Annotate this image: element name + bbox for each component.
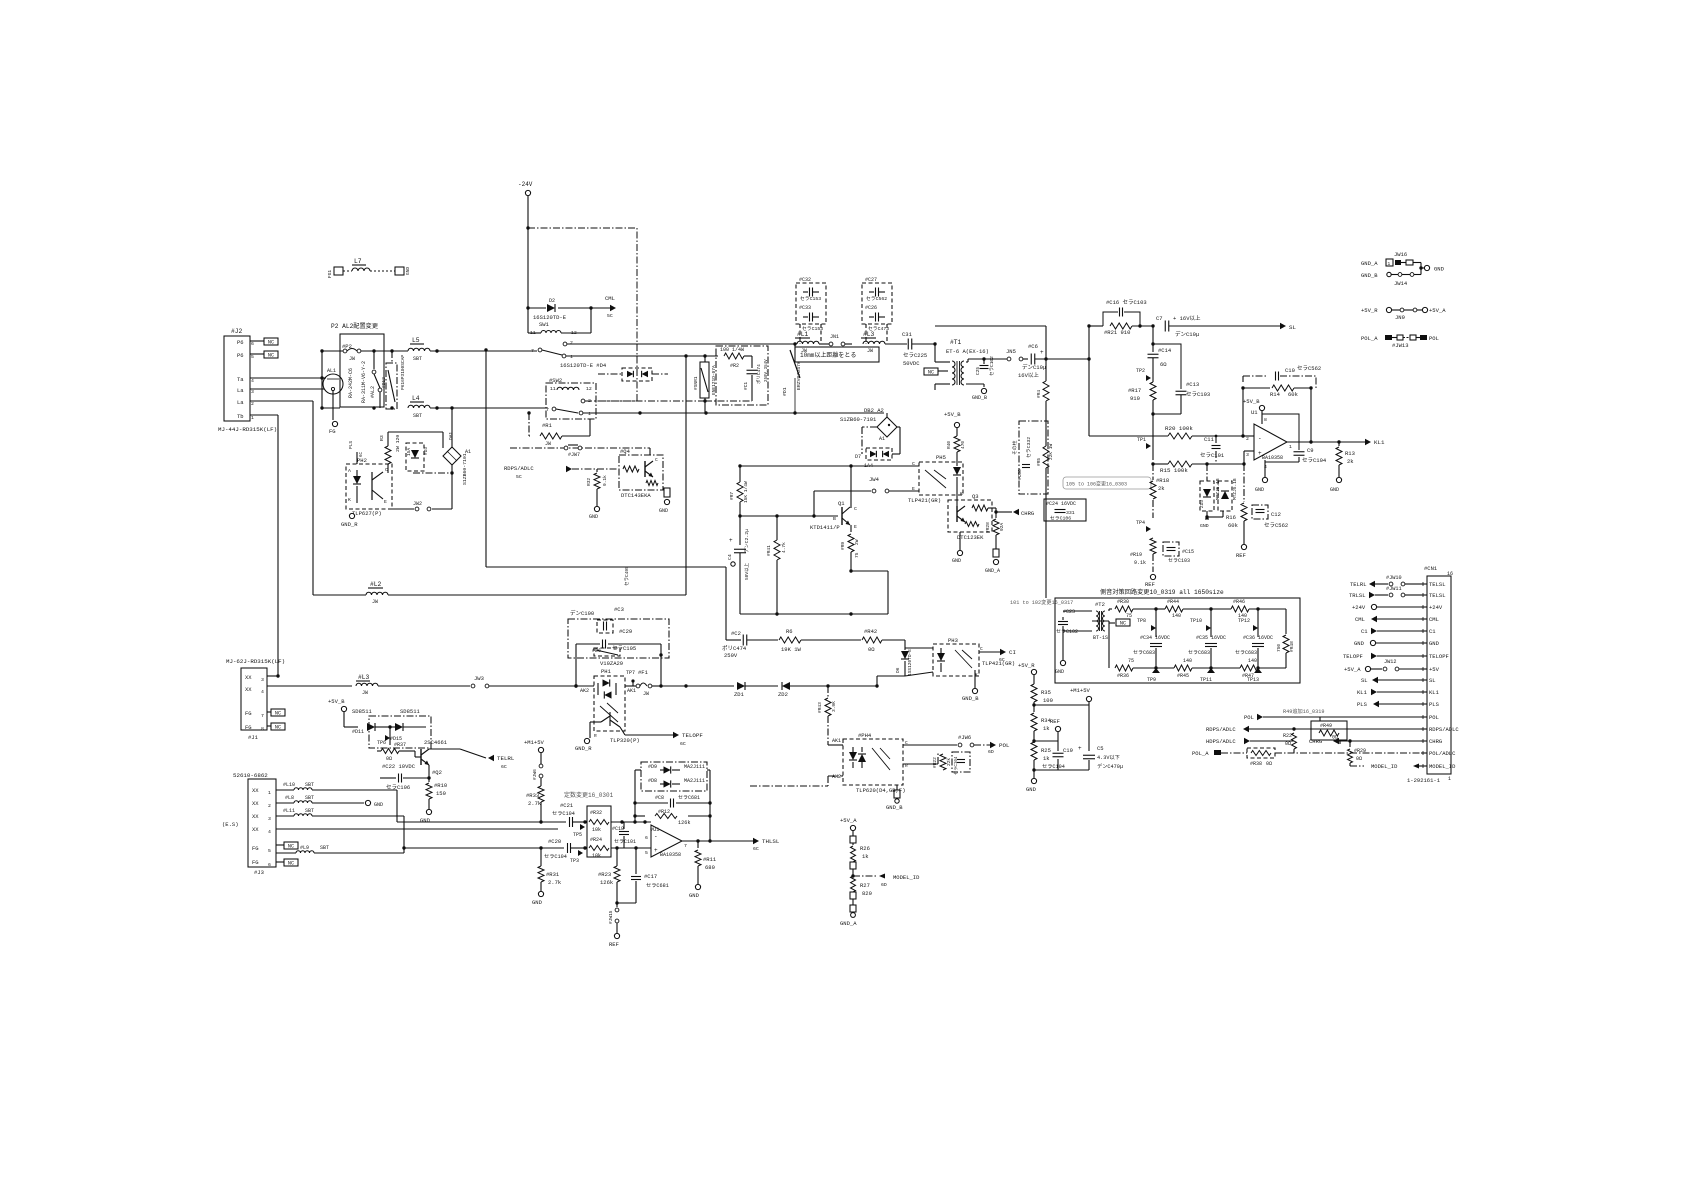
cap C12 <box>1252 505 1288 529</box>
dash-dot R32 to Q4 <box>597 468 619 470</box>
svg-text:A: A <box>348 468 351 474</box>
svg-text:ZD1: ZD1 <box>734 691 745 698</box>
svg-text:SBT: SBT <box>305 808 314 814</box>
svg-text:TP7: TP7 <box>626 670 635 676</box>
jumper JN1 <box>819 334 852 346</box>
jumper #JW6 vert <box>532 764 543 786</box>
svg-text:AK1: AK1 <box>832 738 841 744</box>
jumper JW16 <box>1394 251 1407 258</box>
svg-text:D6: D6 <box>895 667 901 673</box>
svg-text:+: + <box>654 847 658 854</box>
svg-text:0Ω: 0Ω <box>386 756 392 762</box>
opto PH5 <box>908 454 963 504</box>
svg-text:101 to 102変更16_0317: 101 to 102変更16_0317 <box>1010 598 1073 606</box>
signal KL1 <box>1357 689 1421 696</box>
svg-text:1: 1 <box>1448 776 1451 782</box>
svg-text:#L2: #L2 <box>370 581 382 588</box>
signal SL <box>1361 677 1421 684</box>
svg-text:CI: CI <box>1009 649 1016 656</box>
wire L4 branch down <box>450 406 453 448</box>
svg-text:92A: 92A <box>999 523 1005 531</box>
svg-text:セラC683: セラC683 <box>1188 650 1210 656</box>
svg-text:#R21 910: #R21 910 <box>1104 329 1130 336</box>
svg-text:POL_A: POL_A <box>1361 335 1378 342</box>
cap #C21 <box>552 802 587 827</box>
inductor L7 <box>327 258 411 278</box>
connector #J2 <box>218 328 277 433</box>
signal POL cn <box>1244 714 1421 721</box>
note box 10mm <box>795 347 879 362</box>
svg-text:XX: XX <box>252 800 259 807</box>
svg-text:R3: R3 <box>379 435 385 441</box>
connector MJ-62J <box>226 658 285 741</box>
svg-text:C7: C7 <box>1156 315 1163 322</box>
wire vertical Tb to XX3 <box>277 415 279 676</box>
svg-text:Ta: Ta <box>237 376 244 383</box>
svg-text:REF: REF <box>1236 552 1246 559</box>
jumper JN9 row <box>1361 307 1446 321</box>
svg-text:TELOPF: TELOPF <box>1343 653 1363 660</box>
svg-text:250V: 250V <box>724 652 738 659</box>
svg-text:+: + <box>1078 745 1082 752</box>
svg-text:4.7k: 4.7k <box>781 542 787 553</box>
wire y466 <box>738 464 919 467</box>
svg-text:FG: FG <box>245 710 252 717</box>
terminal +M1+5V <box>1032 687 1091 751</box>
svg-text:60k: 60k <box>1228 522 1239 529</box>
svg-text:RDPS/ADLC: RDPS/ADLC <box>1429 726 1459 733</box>
terminal GND topright <box>1394 265 1445 287</box>
connector 52610-6862 <box>222 772 276 876</box>
svg-text:60k: 60k <box>1288 391 1299 398</box>
resistor R34 <box>1031 713 1052 743</box>
resistor #R45 <box>1156 658 1240 679</box>
svg-text:+: + <box>1040 349 1044 356</box>
svg-text:#U1: #U1 <box>650 827 659 833</box>
svg-text:#C36 16VDC: #C36 16VDC <box>1243 635 1273 641</box>
inductor #L8 <box>276 795 383 808</box>
svg-text:10mm以上距離をとる: 10mm以上距離をとる <box>800 351 856 359</box>
svg-text:ポリC474: ポリC474 <box>755 364 762 384</box>
svg-text:REF: REF <box>1145 581 1155 588</box>
svg-text:K: K <box>348 497 351 503</box>
svg-text:2: 2 <box>570 340 573 346</box>
wire ring path <box>484 348 726 640</box>
svg-text:SBT: SBT <box>320 845 329 851</box>
resistor #R37 <box>377 742 415 762</box>
svg-text:1: 1 <box>251 415 254 421</box>
svg-text:TELRL: TELRL <box>1350 581 1367 588</box>
svg-text:#R4: #R4 <box>1036 390 1042 398</box>
svg-text:PLS: PLS <box>1357 701 1368 708</box>
svg-text:4.3V以下: 4.3V以下 <box>1097 754 1120 761</box>
svg-text:4: 4 <box>251 378 254 384</box>
svg-text:セラC683: セラC683 <box>1235 650 1257 656</box>
signal CML <box>1355 616 1421 623</box>
jumper #P2 <box>322 343 408 362</box>
T1 primary wire <box>935 344 950 390</box>
svg-text:POL: POL <box>999 742 1010 749</box>
PH4 in wires <box>750 745 843 786</box>
svg-text:TELRL: TELRL <box>497 755 515 762</box>
svg-text:#JW6: #JW6 <box>532 769 538 780</box>
resistor #R10 <box>420 778 447 824</box>
svg-text:2: 2 <box>251 401 254 407</box>
svg-text:ポリC474: ポリC474 <box>722 645 747 652</box>
svg-text:#C20: #C20 <box>548 838 561 845</box>
cap C25 <box>968 356 1007 376</box>
svg-text:+M1+5V: +M1+5V <box>1070 687 1091 694</box>
svg-text:5: 5 <box>268 848 271 854</box>
svg-text:16V以上: 16V以上 <box>1018 371 1039 379</box>
svg-text:TP2: TP2 <box>1136 368 1145 374</box>
flag SL <box>1169 323 1296 331</box>
svg-text:GND: GND <box>420 817 431 824</box>
svg-text:HDPS/ADLC: HDPS/ADLC <box>1206 738 1236 745</box>
svg-text:GND: GND <box>1434 266 1445 273</box>
CN1 pin labels <box>1421 581 1459 770</box>
svg-text:ZD3: ZD3 <box>1199 500 1205 508</box>
ground GND below R32 <box>589 506 600 520</box>
svg-text:JW: JW <box>349 356 355 362</box>
gnd GND_A mid <box>985 549 1000 574</box>
svg-text:7: 7 <box>546 407 549 413</box>
svg-text:TP1: TP1 <box>1137 437 1146 443</box>
svg-text:PH3: PH3 <box>948 637 958 644</box>
cap #C18 <box>612 822 636 848</box>
svg-text:#Q4: #Q4 <box>620 448 631 455</box>
svg-text:52610-6862: 52610-6862 <box>233 772 268 779</box>
resistor R20 <box>1089 425 1245 439</box>
note 105-106 <box>1063 477 1151 489</box>
svg-text:JW: JW <box>867 348 873 354</box>
svg-text:6C: 6C <box>999 657 1005 663</box>
svg-text:R49追加16_0319: R49追加16_0319 <box>1283 707 1325 715</box>
svg-text:C31: C31 <box>902 331 913 338</box>
junction <box>638 411 796 414</box>
svg-text:+5V: +5V <box>1429 666 1440 673</box>
svg-text:0Ω: 0Ω <box>1266 761 1272 767</box>
transistor block Q3 <box>948 493 996 541</box>
PH3 in wires <box>905 648 933 676</box>
svg-text:CHRG: CHRG <box>1021 510 1034 517</box>
svg-text:#C8: #C8 <box>655 795 664 801</box>
svg-text:4: 4 <box>261 689 264 695</box>
svg-text:定数変更16_0301: 定数変更16_0301 <box>564 791 614 799</box>
svg-text:GND: GND <box>1429 640 1440 647</box>
terminal REF u1 <box>1236 544 1247 559</box>
gnd Q3 <box>952 532 963 564</box>
relay AL2 text RA-311M-V6-Y-2 <box>361 361 367 403</box>
svg-text:GND: GND <box>1354 640 1365 647</box>
svg-text:GND: GND <box>1055 669 1064 675</box>
wire Q1 emitter chain <box>840 525 860 573</box>
feedback R14/C10 <box>1241 385 1312 436</box>
svg-text:TP12: TP12 <box>1238 618 1250 624</box>
wire L3 to C31 <box>885 343 907 345</box>
svg-text:FG: FG <box>252 845 259 852</box>
cap #C14 <box>1148 347 1172 368</box>
svg-text:セラC332: セラC332 <box>1026 437 1032 458</box>
svg-text:R40: R40 <box>946 441 952 449</box>
svg-text:TRLSL: TRLSL <box>1349 592 1366 599</box>
svg-text:3: 3 <box>268 816 271 822</box>
svg-text:#AL2: #AL2 <box>370 386 376 398</box>
svg-text:XX: XX <box>245 674 252 681</box>
rotated cap label <box>624 566 630 586</box>
svg-text:#R41: #R41 <box>766 545 772 556</box>
U1 gnd <box>1255 460 1268 493</box>
cap #C35 <box>1188 609 1226 670</box>
svg-text:140: 140 <box>1183 658 1192 664</box>
svg-text:R32: R32 <box>586 478 592 486</box>
svg-text:#C29: #C29 <box>619 628 632 635</box>
relay AL1 text RA-242M-C6 <box>348 368 354 398</box>
zener #D3 <box>406 443 429 471</box>
svg-text:22k: 22k <box>946 758 952 766</box>
svg-text:MJ-44J-RD315K(LF): MJ-44J-RD315K(LF) <box>218 426 277 433</box>
cap C10 <box>1243 365 1321 388</box>
op-amp #U1b <box>645 825 687 858</box>
wire left chain x1089 <box>1088 326 1090 436</box>
terminal GND_A bottom <box>840 905 857 927</box>
gain box R32/R24 <box>587 806 611 857</box>
marker TP10 <box>1190 618 1211 631</box>
flag TELOPF <box>610 727 703 747</box>
zener ZD2 <box>778 682 879 698</box>
wire Tb <box>250 414 278 416</box>
svg-text:C19: C19 <box>1063 747 1073 754</box>
svg-text:+5V_A: +5V_A <box>1344 666 1361 673</box>
svg-text:#D11: #D11 <box>352 729 364 735</box>
svg-text:-: - <box>1258 435 1262 442</box>
wire xx3 to c20 <box>402 816 564 853</box>
svg-text:#PH4: #PH4 <box>858 732 872 739</box>
NC boxes J3 <box>276 842 298 867</box>
wire L5 to SW1 pivot <box>430 350 537 352</box>
resistor #R41 <box>766 516 787 614</box>
svg-text:C10: C10 <box>1285 367 1295 374</box>
svg-text:FG: FG <box>245 724 252 731</box>
svg-text:E: E <box>384 499 387 505</box>
svg-text:SL: SL <box>1289 324 1296 331</box>
NC box T2 <box>1109 609 1130 627</box>
flag CI <box>979 649 1016 663</box>
svg-text:#J3: #J3 <box>254 869 264 876</box>
svg-text:+ 16V以上: + 16V以上 <box>1173 314 1201 322</box>
signal GND <box>1354 640 1421 647</box>
svg-text:15A: 15A <box>406 448 412 456</box>
svg-text:1k: 1k <box>1043 725 1050 732</box>
svg-text:TLP627(P): TLP627(P) <box>352 510 382 517</box>
svg-text:DTC123EK: DTC123EK <box>957 534 984 541</box>
svg-text:セラC103: セラC103 <box>1168 558 1190 564</box>
wire x686 vertical <box>685 356 687 595</box>
resistor R25 <box>1026 742 1051 793</box>
TP13 marker <box>1247 668 1262 683</box>
svg-text:2k: 2k <box>1347 458 1354 465</box>
svg-text:11: 11 <box>550 386 556 392</box>
svg-text:セラC101: セラC101 <box>614 839 636 845</box>
svg-text:2W 120: 2W 120 <box>395 435 401 452</box>
resistor R15 <box>1151 461 1245 474</box>
svg-text:DTC143EKA: DTC143EKA <box>621 492 651 499</box>
terminal REF bottom <box>609 933 620 948</box>
wire La3 <box>250 388 322 390</box>
marker TP6 <box>377 727 390 746</box>
svg-text:CHRG: CHRG <box>1309 738 1322 745</box>
resistor R16 <box>1226 464 1247 544</box>
svg-text:GND: GND <box>659 508 668 514</box>
wire to TP1 <box>1152 414 1154 460</box>
svg-text:1k: 1k <box>1043 755 1050 762</box>
svg-text:#J2: #J2 <box>231 328 243 335</box>
svg-text:+5V_R: +5V_R <box>1018 662 1035 669</box>
wire AL2 left riser <box>320 349 340 409</box>
svg-text:S1ZB60-7101: S1ZB60-7101 <box>840 416 877 423</box>
svg-text:R: R <box>594 733 597 739</box>
svg-text:R27: R27 <box>860 882 870 889</box>
TP11 marker <box>1200 668 1215 683</box>
svg-text:セラC562: セラC562 <box>866 296 887 302</box>
svg-text:2.7k: 2.7k <box>528 800 542 807</box>
svg-text:#R38: #R38 <box>1250 761 1262 767</box>
diode D6b <box>895 640 913 676</box>
svg-text:3: 3 <box>1246 452 1249 458</box>
svg-text:BT-1S: BT-1S <box>1093 635 1108 641</box>
svg-text:デンC470μ: デンC470μ <box>1097 762 1123 770</box>
svg-text:C: C <box>655 457 658 463</box>
svg-text:+5V_A: +5V_A <box>1429 307 1446 314</box>
svg-text:1k: 1k <box>862 853 869 860</box>
svg-text:#R45: #R45 <box>1177 673 1189 679</box>
svg-text:19K 1W: 19K 1W <box>781 646 802 653</box>
svg-text:#R10: #R10 <box>434 782 447 789</box>
svg-text:140: 140 <box>1172 613 1181 619</box>
svg-text:#C34 16VDC: #C34 16VDC <box>1140 635 1170 641</box>
svg-text:-24V: -24V <box>518 181 533 188</box>
svg-text:+5V_R: +5V_R <box>1361 307 1378 314</box>
box C3 stubs <box>574 644 662 688</box>
svg-text:8: 8 <box>261 726 264 732</box>
varistor #D6 <box>592 648 623 667</box>
dashdot box C30 <box>1011 421 1048 494</box>
U1b out THLSL <box>682 838 780 852</box>
dash-dot SW2 throw <box>585 400 598 402</box>
svg-text:#T2: #T2 <box>1095 601 1105 608</box>
svg-text:TP9: TP9 <box>1147 677 1156 683</box>
svg-text:FG: FG <box>329 428 336 435</box>
signal +5V_A jw12 <box>1344 659 1421 673</box>
svg-text:PLS: PLS <box>348 441 354 449</box>
svg-text:#C24 16VDC: #C24 16VDC <box>1046 501 1076 507</box>
resistor #R36 <box>1092 621 1156 679</box>
svg-text:3.9K: 3.9K <box>831 701 837 712</box>
wire DB2 left dashdot <box>862 427 877 454</box>
op-amp U1 <box>1246 409 1292 470</box>
cap #C16 loop <box>1103 299 1147 326</box>
svg-text:JW16: JW16 <box>1394 251 1407 258</box>
svg-text:#J1: #J1 <box>248 734 259 741</box>
signal CHRG cn <box>1309 738 1421 745</box>
wire XX3 <box>267 674 280 677</box>
resistor #R12 <box>655 809 690 826</box>
terminal FG <box>329 421 338 435</box>
svg-text:#C32: #C32 <box>799 277 811 283</box>
svg-text:6D: 6D <box>988 749 994 755</box>
svg-text:CML: CML <box>605 295 615 302</box>
cap #C29 <box>576 628 661 652</box>
signal RDPS/ADLC cn <box>1206 726 1421 733</box>
svg-text:SBT: SBT <box>413 413 422 419</box>
svg-text:#D1: #D1 <box>782 387 788 396</box>
svg-text:R13: R13 <box>1345 450 1355 457</box>
feedback rails U1b <box>633 770 711 841</box>
note 101-102 <box>1010 598 1073 606</box>
svg-text:S1ZB60-7101: S1ZB60-7101 <box>462 453 468 485</box>
box C24 <box>1044 499 1086 522</box>
svg-text:NC: NC <box>288 844 294 850</box>
resistor #R46 <box>1211 599 1286 619</box>
svg-text:8: 8 <box>1264 417 1267 423</box>
sidetone box title <box>1100 588 1224 596</box>
svg-text:#JW11: #JW11 <box>1386 586 1402 592</box>
wire SNR1 x705 <box>703 354 706 413</box>
svg-text:GND_A: GND_A <box>840 920 857 927</box>
svg-text:JW: JW <box>372 599 378 605</box>
svg-text:#C22 10VDC: #C22 10VDC <box>382 763 416 770</box>
cap pair #C32/#C33 <box>796 277 826 332</box>
svg-text:POL: POL <box>1429 335 1439 342</box>
svg-text:TP3: TP3 <box>570 858 579 864</box>
svg-text:GND_B: GND_B <box>972 395 987 401</box>
svg-text:TELSL: TELSL <box>1429 592 1446 599</box>
jumper #JW6b <box>903 734 991 747</box>
svg-text:#R31: #R31 <box>546 871 560 878</box>
junction <box>703 399 706 402</box>
gnd GND_B ph4 <box>886 785 903 811</box>
svg-text:#C26: #C26 <box>865 305 877 311</box>
svg-text:GND_A: GND_A <box>985 568 1000 574</box>
inductor #L10 <box>276 782 397 790</box>
resistor #R4 <box>1036 381 1049 421</box>
svg-text:R25: R25 <box>1041 747 1051 754</box>
svg-text:R22: R22 <box>1283 733 1292 739</box>
resistor #R32b <box>589 810 609 833</box>
PH1 transistor <box>601 712 620 727</box>
svg-text:C: C <box>912 461 915 467</box>
svg-text:750: 750 <box>1276 644 1282 652</box>
svg-text:#R22: #R22 <box>932 757 938 768</box>
signal C1 <box>1361 628 1421 635</box>
svg-text:SBT: SBT <box>305 795 314 801</box>
box C3 area <box>568 619 669 658</box>
marker TP5 <box>573 824 585 838</box>
svg-text:RA-242M-C6: RA-242M-C6 <box>348 368 354 398</box>
wire Q2 emitter <box>428 765 430 777</box>
svg-text:15K 1/4W: 15K 1/4W <box>743 481 749 503</box>
inductor #L1 <box>795 331 819 354</box>
svg-text:1-292161-1: 1-292161-1 <box>1407 777 1441 784</box>
svg-text:セラC104: セラC104 <box>544 853 567 860</box>
svg-text:Tb: Tb <box>237 413 244 420</box>
svg-text:6C: 6C <box>680 741 686 747</box>
svg-text:#R49: #R49 <box>1320 723 1332 729</box>
svg-text:NC: NC <box>275 725 281 731</box>
svg-text:2W: 2W <box>854 539 860 545</box>
svg-text:セラC683: セラC683 <box>1133 650 1155 656</box>
note R49 <box>1283 707 1325 715</box>
